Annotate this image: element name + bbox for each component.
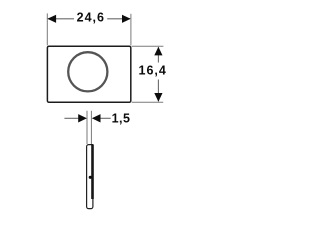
- plate front view outline: [47, 46, 130, 102]
- side view button dot: [89, 176, 92, 179]
- extension line bottom (height dim): [132, 101, 164, 103]
- svg-text:16,4: 16,4: [139, 64, 167, 78]
- extension line top (height dim): [132, 45, 164, 47]
- svg-text:24,6: 24,6: [77, 10, 105, 24]
- plate side view outline: [87, 145, 93, 209]
- extension line right (width dim): [130, 14, 132, 46]
- width dimension line right segment: [107, 18, 130, 20]
- height dimension line lower segment: [157, 80, 159, 102]
- height dim arrow down: [154, 93, 162, 102]
- width dimension line left segment: [48, 18, 74, 20]
- thickness dimension line right segment: [100, 117, 111, 119]
- extension line left (width dim): [46, 13, 48, 45]
- button circle ring: [68, 52, 107, 91]
- thickness dim arrow pointing right: [78, 114, 87, 122]
- thickness extension line left: [86, 111, 88, 144]
- height dim arrow up: [154, 47, 162, 56]
- svg-text:1,5: 1,5: [112, 112, 131, 126]
- width dim arrow left: [47, 15, 56, 23]
- thickness dim arrow pointing left: [92, 114, 101, 122]
- height dimension line upper segment: [157, 47, 159, 62]
- thickness extension line right: [90, 111, 92, 144]
- plate side view thick face (cross-section): [91, 144, 94, 199]
- width dim arrow right: [122, 15, 131, 23]
- thickness dimension line left segment: [64, 117, 78, 119]
